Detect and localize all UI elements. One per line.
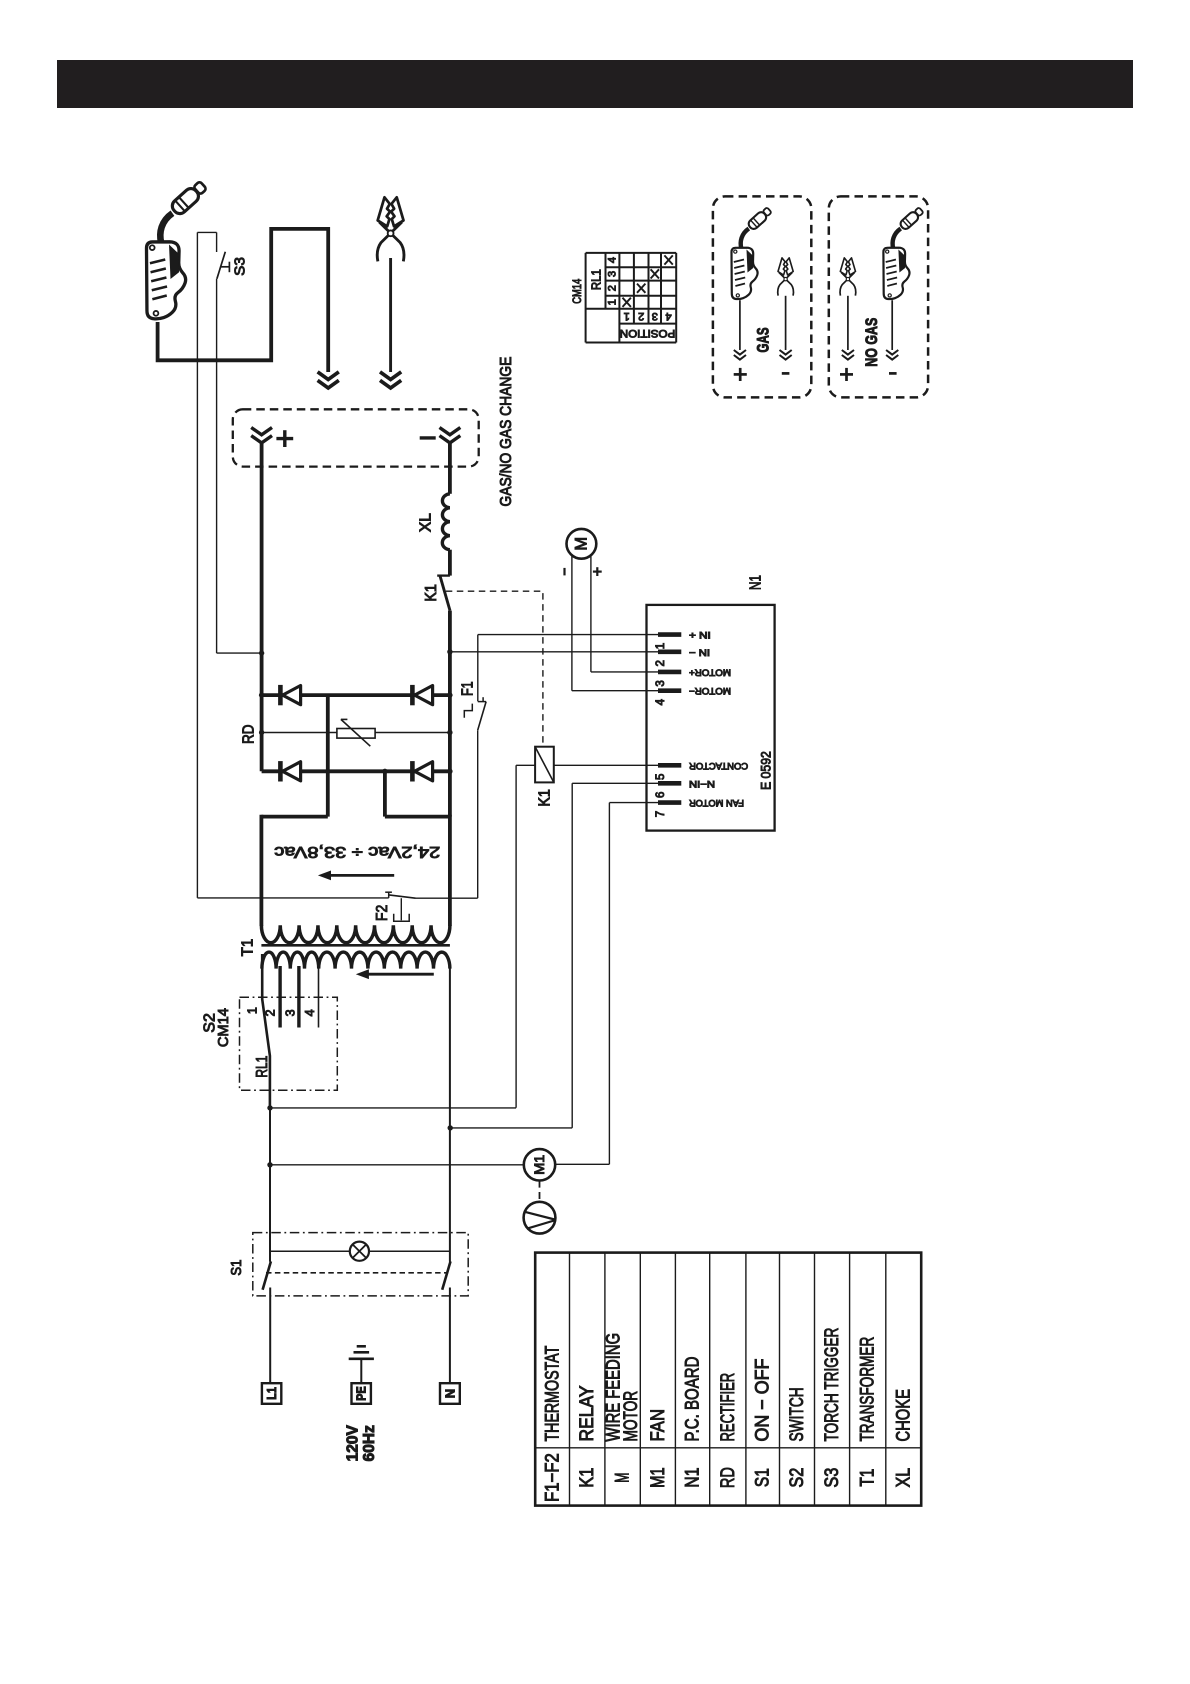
svg-text:6: 6 [655,792,667,798]
svg-text:XL: XL [893,1468,915,1488]
svg-text:24,2Vac ÷ 33,8Vac: 24,2Vac ÷ 33,8Vac [274,843,440,860]
svg-text:S1: S1 [229,1260,245,1276]
svg-text:3: 3 [655,680,667,686]
svg-text:RL1: RL1 [589,269,603,290]
svg-text:5: 5 [655,774,667,780]
svg-text:2: 2 [264,1009,278,1016]
svg-text:L1: L1 [264,1387,279,1400]
svg-text:F1: F1 [459,681,476,696]
svg-text:M: M [612,1473,634,1483]
svg-text:E 0592: E 0592 [757,751,773,790]
svg-text:FAN: FAN [647,1409,669,1442]
svg-text:S1: S1 [752,1468,774,1487]
svg-text:RD: RD [240,725,257,744]
svg-text:N1: N1 [747,575,764,590]
svg-text:S3: S3 [821,1468,843,1488]
svg-text:MOTOR: MOTOR [620,1391,642,1442]
svg-text:NO GAS: NO GAS [862,318,881,367]
svg-text:CHOKE: CHOKE [893,1389,915,1441]
svg-text:F2: F2 [374,905,391,921]
svg-text:RELAY: RELAY [576,1386,598,1442]
svg-text:3: 3 [283,1009,297,1016]
svg-text:S2: S2 [786,1468,808,1488]
svg-text:1: 1 [655,643,667,649]
svg-text:K1: K1 [423,584,440,602]
svg-text:4: 4 [606,257,618,263]
svg-text:IN −: IN − [688,646,710,657]
svg-text:1: 1 [606,299,618,305]
svg-text:TRANSFORMER: TRANSFORMER [857,1337,879,1442]
svg-text:P.C. BOARD: P.C. BOARD [682,1357,704,1442]
svg-text:THERMOSTAT: THERMOSTAT [541,1346,563,1442]
svg-text:CONTACTOR: CONTACTOR [689,760,748,771]
svg-text:S3: S3 [231,257,248,276]
svg-text:RECTIFIER: RECTIFIER [717,1373,739,1442]
svg-text:2: 2 [606,285,618,291]
svg-text:XL: XL [418,513,435,532]
svg-text:2: 2 [638,310,644,322]
svg-text:N−IN: N−IN [689,778,715,789]
svg-text:120V: 120V [344,1424,361,1461]
svg-text:CM14: CM14 [215,1008,232,1047]
svg-text:GAS: GAS [754,327,773,352]
svg-text:GAS/NO GAS CHANGE: GAS/NO GAS CHANGE [498,357,515,507]
svg-text:2: 2 [655,660,667,666]
svg-text:MOTOR−: MOTOR− [689,685,731,696]
svg-text:PE: PE [354,1386,369,1401]
svg-text:POSITION: POSITION [620,327,675,339]
svg-text:T1: T1 [240,939,257,957]
svg-text:3: 3 [652,310,658,322]
svg-text:K1: K1 [576,1468,598,1488]
svg-text:M1: M1 [532,1155,547,1175]
svg-text:M1: M1 [647,1467,669,1488]
svg-text:N: N [442,1389,457,1398]
svg-text:ON − OFF: ON − OFF [752,1358,774,1441]
svg-text:4: 4 [655,698,667,705]
svg-text:IN +: IN + [688,629,710,640]
svg-text:T1: T1 [857,1469,879,1487]
svg-text:CM14: CM14 [570,279,584,304]
svg-text:M: M [572,537,590,551]
svg-text:TORCH TRIGGER: TORCH TRIGGER [821,1328,843,1442]
svg-text:3: 3 [606,271,618,277]
svg-text:MOTOR+: MOTOR+ [689,666,731,677]
svg-text:7: 7 [655,811,667,817]
svg-text:F1−F2: F1−F2 [541,1453,563,1502]
svg-text:60Hz: 60Hz [361,1425,378,1462]
svg-text:FAN MOTOR: FAN MOTOR [689,797,744,808]
svg-text:N1: N1 [682,1468,704,1488]
svg-text:K1: K1 [537,789,554,807]
svg-text:SWITCH: SWITCH [786,1387,808,1441]
svg-text:4: 4 [303,1009,317,1016]
svg-text:1: 1 [246,1007,260,1014]
svg-text:1: 1 [624,310,630,322]
svg-text:RL1: RL1 [254,1056,271,1078]
svg-text:RD: RD [717,1467,739,1488]
svg-text:4: 4 [666,310,672,322]
